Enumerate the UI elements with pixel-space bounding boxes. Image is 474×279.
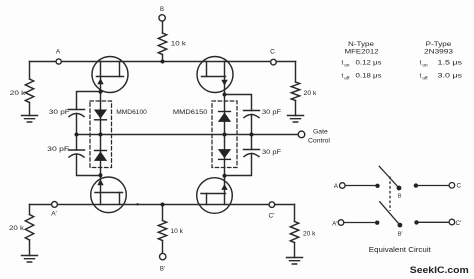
label Gate Control — [308, 129, 330, 145]
transistor Q3 bottom-left FET body — [91, 177, 127, 213]
watermark SeekIC.com — [410, 265, 469, 276]
svg-text:B: B — [398, 194, 402, 200]
svg-text:C′: C′ — [269, 213, 276, 220]
diode D2 MMD6100 bottom — [94, 150, 107, 161]
svg-text:3.0 μs: 3.0 μs — [438, 72, 463, 79]
resistor 20k (A) — [25, 79, 33, 103]
label B' — [160, 267, 166, 273]
terminal A' — [52, 202, 58, 208]
terminal eq C — [449, 183, 455, 189]
svg-text:on: on — [344, 62, 350, 67]
label eq A — [334, 183, 339, 190]
equivalent circuit — [344, 166, 449, 225]
capacitor C3 30pF right-top — [244, 111, 260, 118]
wire eq A to contact — [345, 185, 376, 187]
svg-text:Gate: Gate — [313, 129, 328, 136]
switch arm B' — [379, 201, 400, 225]
transistor Q1 gate arrow — [97, 78, 103, 84]
label eq B — [398, 194, 402, 200]
svg-text:1.5 μs: 1.5 μs — [438, 59, 463, 66]
label MMD6150 — [173, 109, 208, 116]
diode D4 MMD6150 bottom — [218, 149, 231, 160]
wire A column — [29, 62, 31, 116]
wire left gate line (x=101) — [100, 62, 102, 205]
svg-text:0.12 μs: 0.12 μs — [356, 59, 382, 66]
diode D1 MMD6100 top — [94, 110, 107, 121]
wire right gate line (x=224.5) — [224, 62, 226, 205]
svg-text:N-Type: N-Type — [348, 41, 375, 48]
transistor Q1 channel bar — [97, 76, 124, 78]
terminal eq A' — [338, 220, 344, 226]
node eq pivot B' — [398, 223, 403, 228]
resistor 20k (C') — [290, 222, 298, 243]
wire gate control bus — [77, 134, 299, 136]
capacitor C4 30pF right-bottom — [244, 150, 260, 157]
transistor Q1 top-left FET body — [92, 57, 128, 93]
transistor Q2 drain stub — [206, 62, 208, 77]
label 10 k (B) — [171, 40, 187, 47]
svg-text:B: B — [160, 7, 164, 13]
svg-text:MFE2012: MFE2012 — [345, 49, 380, 56]
table N-Type MFE2012 switching times — [342, 41, 463, 80]
svg-text:C: C — [457, 183, 462, 190]
node right cap rail mid junction — [250, 133, 254, 137]
ground (A column) — [22, 116, 38, 123]
capacitor C1 30pF left-top — [69, 110, 85, 117]
wire bottom rail A' to C' column — [30, 204, 295, 206]
label 20 k (A) — [10, 90, 26, 97]
node eq contact C — [414, 183, 418, 187]
svg-text:off: off — [422, 75, 428, 80]
transistor Q4 bottom-right FET body — [197, 178, 233, 214]
label eq C — [457, 183, 462, 190]
label 30 pF right-top — [262, 109, 281, 116]
svg-text:20 k: 20 k — [10, 90, 26, 97]
node eq pivot B — [397, 186, 402, 191]
terminal B — [159, 15, 165, 21]
svg-text:A: A — [56, 49, 61, 56]
transistor Q3 drain stub — [119, 193, 121, 205]
terminal B' — [160, 253, 166, 259]
svg-text:Control: Control — [308, 137, 330, 144]
svg-text:B′: B′ — [160, 267, 166, 273]
ground (C' column) — [287, 258, 303, 265]
label 20 k (A') — [9, 225, 25, 232]
svg-text:0.18 μs: 0.18 μs — [356, 72, 382, 79]
node right diode mid junction — [223, 133, 227, 137]
node at B resistor junction — [161, 60, 165, 64]
svg-text:20 k: 20 k — [9, 225, 25, 232]
dashed mechanical link — [389, 177, 391, 212]
label 30 pF right-bottom — [262, 149, 281, 156]
transistor Q1 drain stub — [119, 62, 121, 77]
table P-Type 2N3993 switching times — [420, 41, 462, 80]
label B — [160, 7, 164, 13]
terminal C' — [269, 202, 275, 208]
svg-text:30 pF: 30 pF — [49, 109, 70, 116]
label C — [270, 49, 275, 56]
svg-text:on: on — [422, 62, 428, 67]
node eq contact C' — [414, 220, 418, 224]
terminal eq A — [340, 183, 346, 189]
diode D3 MMD6150 top — [218, 111, 231, 122]
ground (C column) — [288, 116, 304, 123]
transistor Q4 drain stub — [206, 194, 208, 205]
terminal Gate Control — [298, 131, 305, 138]
svg-text:t: t — [342, 59, 344, 66]
ground (A' column) — [22, 256, 38, 263]
label eq B' — [398, 231, 403, 237]
diode box MMD6150 dashed — [212, 101, 237, 168]
svg-text:P-Type: P-Type — [426, 41, 452, 48]
node left diode mid junction — [99, 133, 103, 137]
label 30 pF left-bottom — [47, 146, 69, 153]
resistor 20k (C) — [291, 82, 299, 101]
svg-text:SeekIC.com: SeekIC.com — [410, 265, 469, 276]
wire B' lead — [162, 205, 164, 254]
node at B' resistor junction — [161, 203, 165, 207]
label C' — [269, 213, 276, 220]
label Equivalent Circuit — [369, 247, 431, 254]
svg-text:Equivalent Circuit: Equivalent Circuit — [369, 247, 431, 254]
wire C' column — [294, 205, 296, 258]
transistor Q2 top-right FET body — [197, 57, 233, 93]
svg-text:C: C — [270, 49, 275, 56]
transistor Q4 gate arrow — [221, 184, 227, 190]
svg-text:10 k: 10 k — [171, 40, 187, 47]
wire eq A' to contact — [344, 222, 375, 224]
svg-text:2N3993: 2N3993 — [424, 49, 454, 56]
wire B terminal lead — [162, 21, 164, 62]
switch arm B — [379, 166, 399, 188]
transistor Q3 channel bar — [95, 192, 123, 194]
label 30 pF left-top — [49, 109, 70, 116]
svg-text:t: t — [420, 72, 422, 79]
diode box MMD6100 dashed — [90, 101, 112, 168]
transistor Q3 gate arrow — [97, 179, 103, 185]
wire 30pF left rail — [77, 92, 101, 176]
label eq C' — [456, 220, 463, 227]
svg-text:MMD6100: MMD6100 — [116, 109, 147, 116]
node Q1 gate junction — [99, 90, 103, 94]
terminal A — [56, 59, 61, 64]
wire 30pF right rail — [225, 95, 252, 176]
svg-text:A′: A′ — [51, 211, 57, 218]
label MMD6100 — [116, 109, 147, 116]
node Q2 gate junction — [223, 93, 227, 97]
svg-text:10 k: 10 k — [171, 228, 184, 235]
resistor 20k (A') — [25, 215, 33, 241]
label A' — [51, 211, 57, 218]
terminal C — [271, 59, 277, 65]
wire eq contact to C — [418, 185, 449, 187]
node Q3 gate junction — [99, 173, 103, 177]
wire A' column — [29, 205, 31, 256]
transistor Q2 channel bar — [202, 76, 226, 78]
terminal eq C' — [449, 219, 455, 225]
resistor 10k (B') — [158, 221, 166, 241]
capacitor C2 30pF left-bottom — [69, 150, 85, 157]
transistor Q4 channel bar — [201, 193, 226, 195]
svg-text:B′: B′ — [398, 231, 403, 237]
svg-text:MMD6150: MMD6150 — [173, 109, 208, 116]
wire top rail A to C column — [30, 61, 296, 63]
label 20 k (C') — [303, 231, 316, 238]
svg-text:off: off — [344, 75, 350, 80]
svg-text:A: A — [334, 183, 339, 190]
svg-text:20 k: 20 k — [304, 90, 318, 97]
svg-text:30 pF: 30 pF — [262, 149, 281, 156]
svg-text:A′: A′ — [332, 221, 338, 228]
label A — [56, 49, 61, 56]
resistor 10k (B) — [158, 33, 166, 55]
svg-text:t: t — [342, 72, 344, 79]
label 20 k (C) — [304, 90, 318, 97]
node left cap rail mid junction — [75, 133, 79, 137]
node eq contact A — [375, 184, 379, 188]
svg-text:30 pF: 30 pF — [47, 146, 69, 153]
svg-text:30 pF: 30 pF — [262, 109, 281, 116]
svg-text:t: t — [420, 59, 422, 66]
node Q4 gate junction — [223, 174, 227, 178]
node eq contact A' — [375, 221, 379, 225]
svg-text:C′: C′ — [456, 220, 463, 227]
wire eq contact to C' — [419, 221, 449, 223]
label eq A' — [332, 221, 338, 228]
svg-text:20 k: 20 k — [303, 231, 316, 238]
wire C column — [295, 62, 297, 116]
transistor Q2 gate arrow — [221, 80, 227, 86]
node small junction on bottom rail — [136, 203, 138, 205]
label 10 k (B') — [171, 228, 184, 235]
